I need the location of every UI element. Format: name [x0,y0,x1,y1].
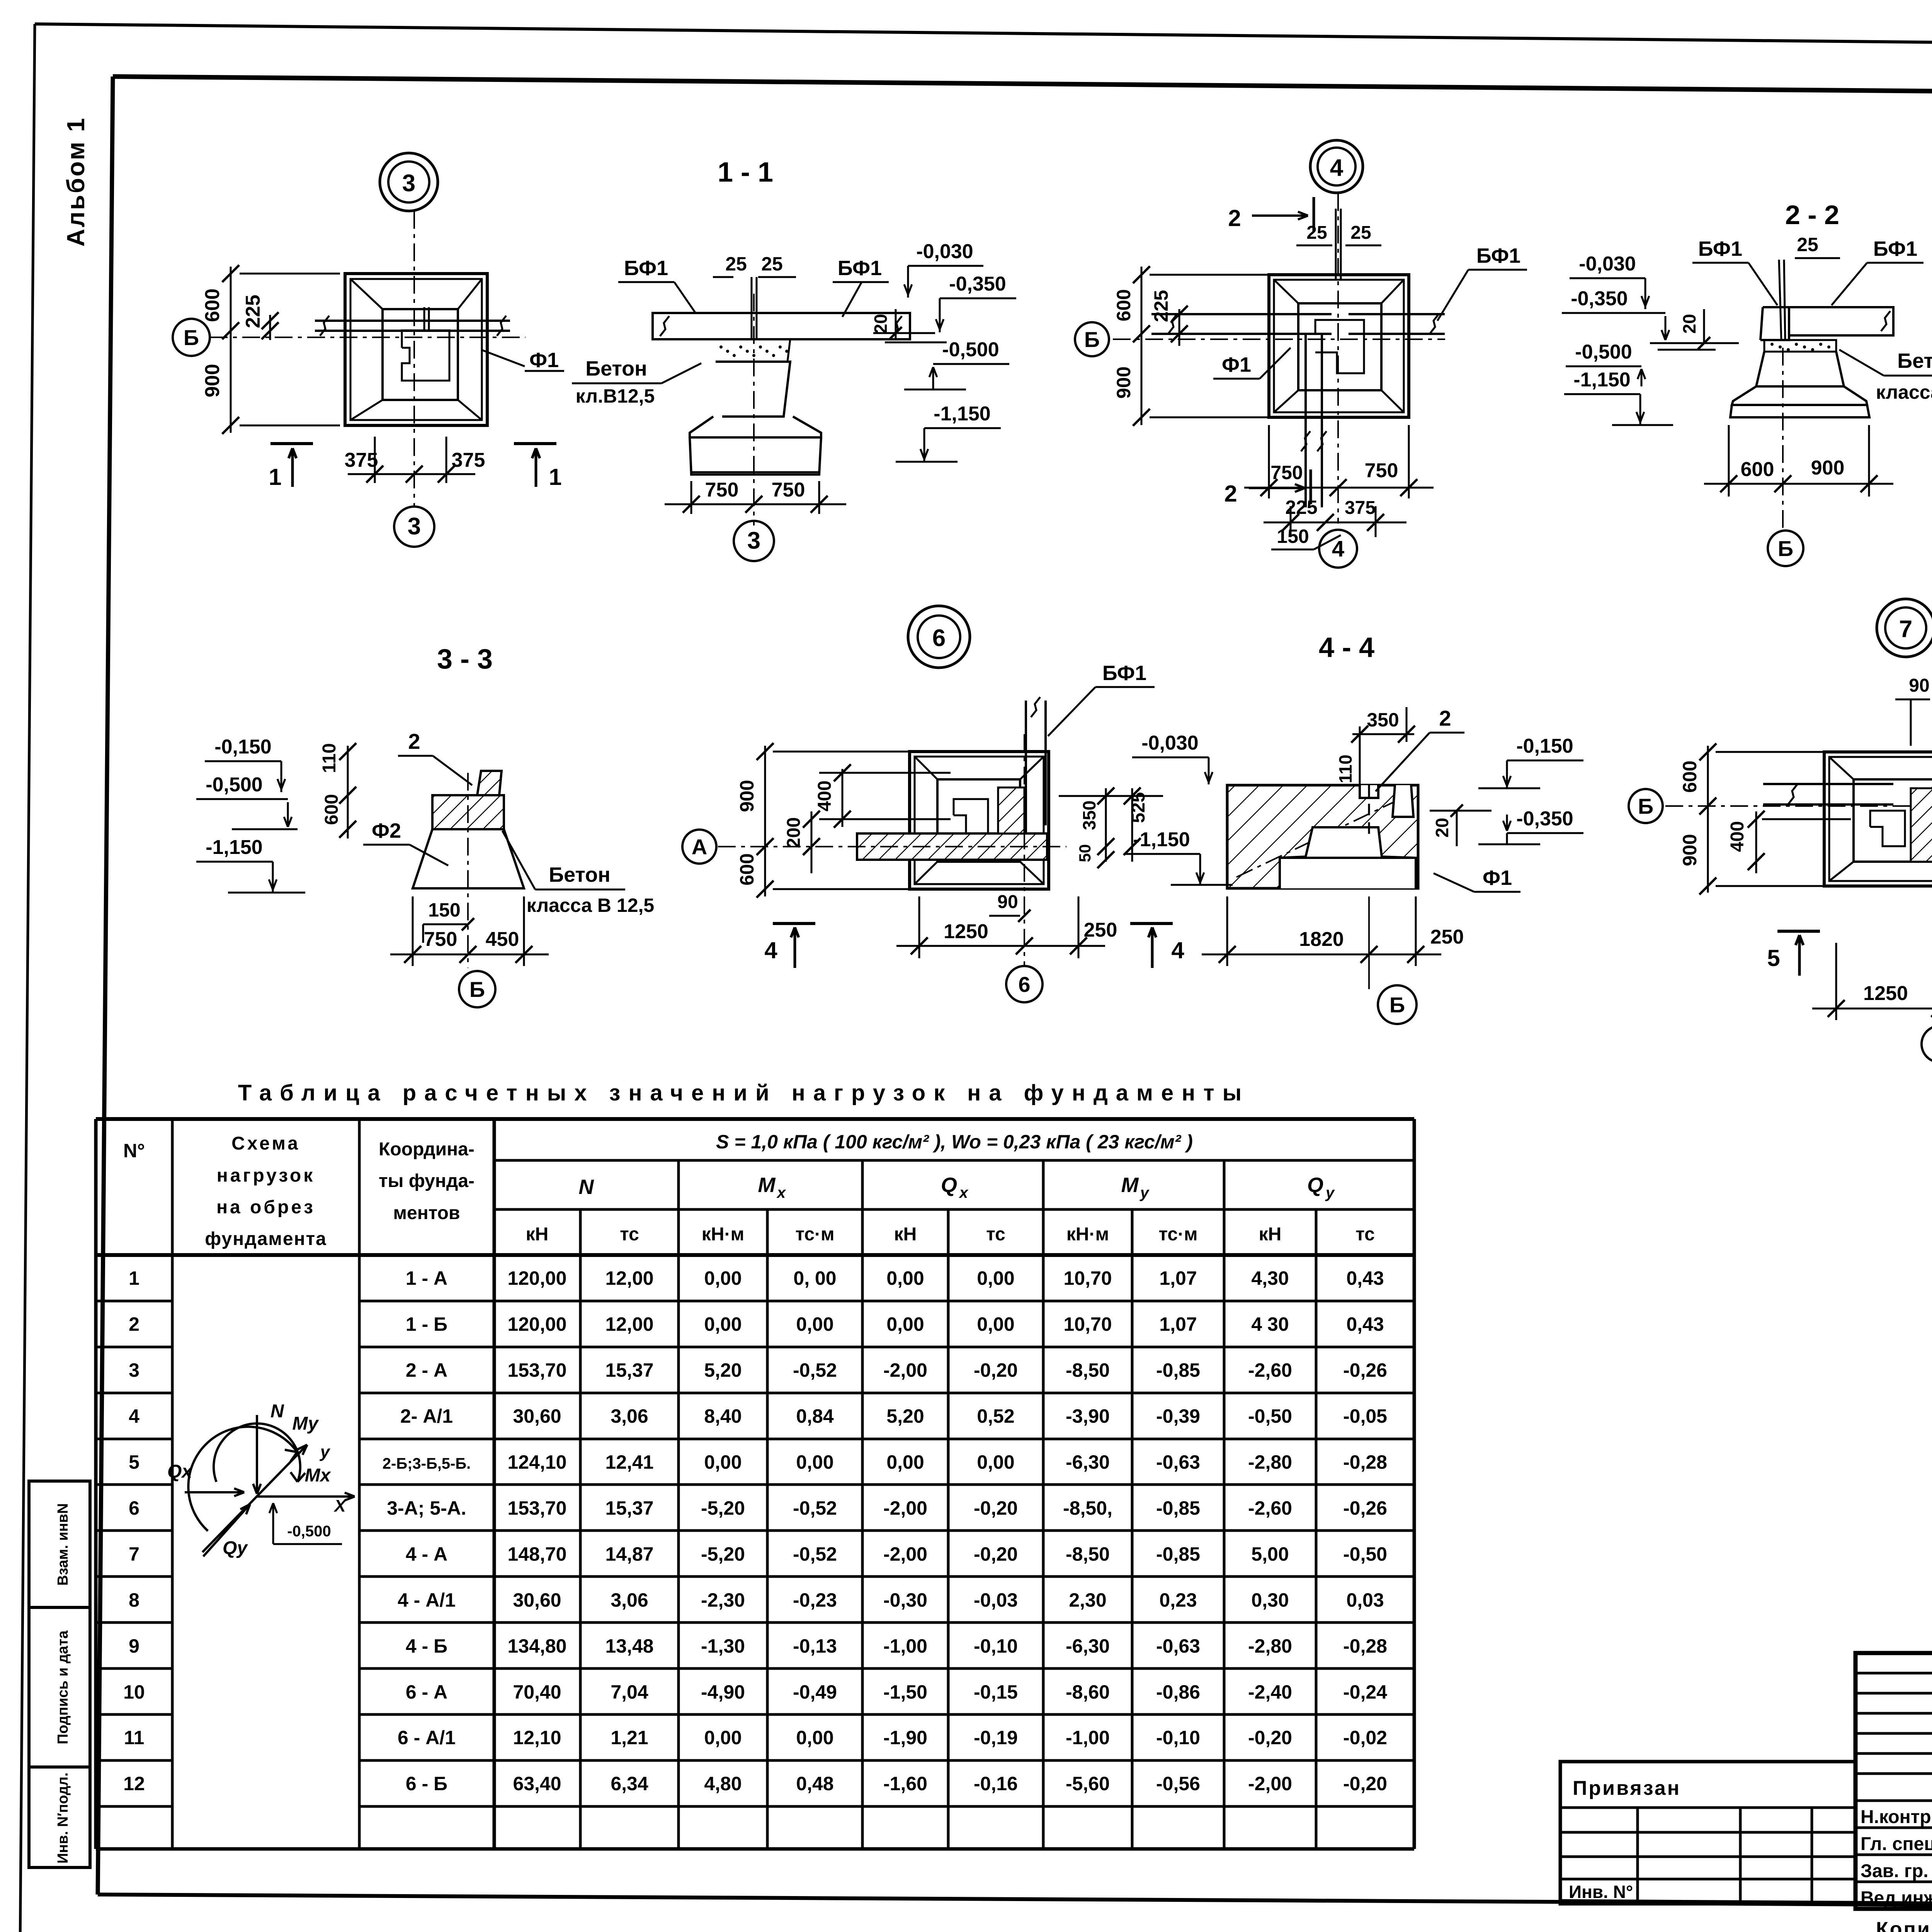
svg-text:63,40: 63,40 [513,1773,561,1794]
svg-text:Бетон: Бетон [585,357,647,380]
node 4 plan - vertical beam going down [1304,334,1307,507]
svg-text:Б: Б [1638,794,1653,818]
svg-text:1,07: 1,07 [1159,1267,1197,1289]
node 7 plan - corner diagonals [1829,757,1854,779]
svg-text:тс·м: тс·м [1158,1224,1197,1245]
svg-text:0,00: 0,00 [796,1313,833,1335]
svg-text:0,52: 0,52 [977,1405,1014,1427]
svg-text:8,40: 8,40 [704,1405,742,1427]
svg-text:250: 250 [1084,919,1117,941]
svg-text:А: А [692,835,707,859]
section 2-2 - bottom dimension 600 900 [1728,425,1730,497]
svg-text:-2,60: -2,60 [1248,1497,1292,1519]
svg-text:Б: Б [184,325,199,350]
node 4 plan - vertical axis line [1337,193,1339,524]
node 3 plan - label F1 with leader [481,350,525,366]
svg-text:-0,56: -0,56 [1156,1773,1200,1794]
scheme level -0.500 [272,1503,274,1544]
svg-text:-0,10: -0,10 [974,1635,1018,1657]
svg-text:15,37: 15,37 [605,1359,653,1381]
svg-text:-0,19: -0,19 [974,1727,1018,1748]
svg-text:134,80: 134,80 [508,1635,567,1657]
node 3 plan - vertical axis line [413,211,415,507]
svg-text:110: 110 [1335,755,1355,783]
svg-text:-0,52: -0,52 [793,1359,837,1381]
svg-text:-2,80: -2,80 [1248,1451,1292,1473]
svg-text:-0,500: -0,500 [206,774,262,796]
node 7 plan - horizontal beam entering [1763,783,1893,785]
svg-text:-0,350: -0,350 [1571,287,1628,310]
svg-text:Мх: Мх [305,1465,332,1486]
svg-text:0,00: 0,00 [977,1451,1014,1473]
svg-text:25: 25 [761,253,783,275]
svg-text:S = 1,0 кПа ( 100 кгс/м² ), W: S = 1,0 кПа ( 100 кгс/м² ), Wo = 0,23 кП… [716,1131,1193,1153]
svg-text:-0,28: -0,28 [1343,1635,1387,1657]
svg-text:Ф1: Ф1 [1483,866,1512,889]
section 4-4 - bottom axis circle B [1378,985,1417,1024]
svg-text:5: 5 [129,1451,139,1473]
svg-text:0,00: 0,00 [886,1451,924,1473]
svg-text:12,00: 12,00 [605,1313,653,1335]
node 4 plan - dimension 225 375 [1290,506,1292,537]
svg-text:150: 150 [428,899,460,921]
node 6 plan - corner diagonals [915,757,937,779]
svg-text:148,70: 148,70 [508,1543,567,1565]
svg-text:Схема: Схема [231,1133,300,1154]
svg-text:-0,52: -0,52 [793,1497,837,1519]
svg-text:4 - А: 4 - А [406,1543,447,1565]
svg-text:Б: Б [1389,993,1405,1017]
svg-text:тс: тс [986,1224,1005,1245]
svg-text:120,00: 120,00 [508,1267,567,1289]
svg-text:6 - Б: 6 - Б [406,1773,447,1794]
svg-text:15,37: 15,37 [605,1497,653,1519]
svg-text:Б: Б [469,977,485,1002]
svg-text:2 - 2: 2 - 2 [1785,200,1839,230]
scheme N arrow [256,1415,258,1494]
svg-text:-1,50: -1,50 [883,1681,927,1703]
svg-text:-0,500: -0,500 [287,1523,331,1540]
svg-text:-0,50: -0,50 [1343,1543,1387,1565]
svg-text:0, 00: 0, 00 [793,1267,836,1289]
section 1-1 - beam slab [653,313,910,339]
svg-text:ты фунда-: ты фунда- [379,1171,474,1191]
node 4 plan - cup rim [1298,303,1381,390]
section 2-2 - beam slab [1789,307,1893,335]
svg-text:БФ1: БФ1 [838,257,882,280]
svg-text:Инв. N′подл.: Инв. N′подл. [55,1772,71,1864]
svg-text:5,20: 5,20 [886,1405,924,1427]
svg-text:0,00: 0,00 [796,1727,833,1748]
node 3 plan - section mark 1 left [270,442,313,445]
section 3-3 - dimension 750 450 [412,896,414,966]
svg-text:-2,00: -2,00 [883,1497,927,1519]
section 2-2 - axis line [1782,348,1784,529]
node 3 plan - top axis circle 3 [380,153,438,211]
svg-text:3: 3 [129,1359,139,1381]
svg-text:4,80: 4,80 [704,1773,742,1794]
svg-text:2: 2 [408,729,420,753]
svg-text:0,03: 0,03 [1346,1589,1384,1611]
svg-text:-0,28: -0,28 [1343,1451,1387,1473]
node 7 plan - outer square [1824,752,1932,886]
svg-text:2 - А: 2 - А [406,1359,447,1381]
section 2-2 - bottom axis circle B [1768,531,1803,566]
svg-text:4: 4 [1332,536,1344,561]
svg-text:-5,60: -5,60 [1066,1773,1110,1794]
node 3 plan - corner diagonals [350,279,383,309]
svg-text:класса В 12,5: класса В 12,5 [1876,381,1932,403]
svg-text:-0,15: -0,15 [974,1681,1018,1703]
svg-text:N: N [579,1175,594,1199]
svg-text:-1,60: -1,60 [883,1773,927,1794]
svg-text:11: 11 [124,1727,145,1748]
svg-text:3: 3 [402,170,415,197]
node 3 plan - horizontal axis line B [210,337,526,338]
node 6 plan - vertical axis line [1024,734,1025,966]
svg-text:-0,10: -0,10 [1156,1727,1200,1748]
svg-text:у: у [320,1442,331,1461]
svg-text:тс·м: тс·м [795,1224,834,1245]
svg-text:153,70: 153,70 [508,1359,567,1381]
svg-text:20: 20 [871,314,891,333]
section 1-1 - column joint pair [751,277,753,339]
svg-text:3,06: 3,06 [611,1589,648,1611]
svg-text:тс: тс [620,1224,639,1245]
svg-text:1: 1 [129,1267,139,1289]
svg-text:4,30: 4,30 [1251,1267,1289,1289]
svg-text:-0,52: -0,52 [793,1543,837,1565]
svg-text:-0,03: -0,03 [974,1589,1018,1611]
node 4 plan - axis circle B [1075,322,1109,356]
svg-text:-0,030: -0,030 [916,240,973,263]
section 1-1 - bottom axis circle 3 [734,521,774,561]
node 3 plan - axis circle B [173,319,210,356]
node 3 plan - bottom axis circle 3 [394,507,434,547]
svg-text:-6,30: -6,30 [1066,1451,1110,1473]
node 7 plan - left dimension 600 900 400 [1707,746,1709,893]
svg-text:-1,90: -1,90 [883,1727,927,1748]
svg-text:-0,030: -0,030 [1141,732,1198,754]
svg-text:x: x [959,1184,969,1201]
svg-text:3: 3 [408,513,421,540]
svg-text:N: N [270,1401,284,1422]
svg-text:Х: Х [333,1497,347,1515]
svg-text:-0,500: -0,500 [1575,341,1632,363]
section 2-2 - base block [1730,405,1869,417]
svg-text:30,60: 30,60 [513,1405,561,1427]
svg-text:x: x [776,1184,786,1201]
section 1-1 - axis line [753,294,755,526]
svg-text:200: 200 [784,817,804,848]
svg-text:250: 250 [1430,926,1464,948]
section 3-3 - bottom axis circle B [459,971,495,1007]
svg-text:Б: Б [1778,536,1793,561]
node 4 plan - internal stepped column [1315,320,1364,373]
svg-text:Подпись и дата: Подпись и дата [55,1630,71,1744]
svg-text:БФ1: БФ1 [1873,237,1917,260]
svg-text:Гл. спец: Гл. спец [1861,1834,1932,1854]
svg-text:6 - А: 6 - А [406,1681,447,1703]
svg-text:Копировал: Копировал [1876,1918,1932,1932]
svg-text:0,00: 0,00 [977,1313,1014,1335]
node 3 plan - cup rim square [383,309,458,400]
svg-text:-5,20: -5,20 [701,1543,745,1565]
svg-text:Инв. N°: Инв. N° [1569,1882,1633,1902]
svg-text:-0,030: -0,030 [1579,253,1636,275]
svg-text:Му: Му [292,1413,319,1434]
svg-text:4: 4 [1171,937,1184,963]
section 4-4 - hatched ground block [1227,785,1418,888]
section 3-3 - hatched pier block [432,795,504,829]
node 6 plan - left dimension 900 600 400 200 [764,746,766,896]
node 4 plan - bottom axis circle 4 [1319,530,1357,568]
svg-text:900: 900 [736,780,758,812]
svg-text:25: 25 [1306,223,1327,243]
svg-text:2,30: 2,30 [1069,1589,1106,1611]
svg-text:124,10: 124,10 [508,1451,567,1473]
svg-text:120,00: 120,00 [508,1313,567,1335]
svg-text:-0,05: -0,05 [1343,1405,1387,1427]
node 6 plan - section mark 4 right [1130,922,1173,925]
svg-text:-0,30: -0,30 [883,1589,927,1611]
svg-text:-1,150: -1,150 [1133,828,1190,851]
svg-text:12: 12 [123,1773,145,1794]
node 7 plan - top axis circle 7 [1877,599,1932,657]
svg-text:-0,150: -0,150 [1516,735,1573,757]
scheme y diagonal axis [202,1445,307,1552]
svg-text:110: 110 [319,743,340,773]
svg-text:1 - 1: 1 - 1 [718,157,773,188]
svg-text:Ф1: Ф1 [1222,353,1251,376]
node 3 plan - column section [402,330,449,381]
svg-text:БФ1: БФ1 [624,257,668,280]
node 6 plan - horizontal axis line A [718,846,1066,847]
svg-text:5: 5 [1767,945,1780,971]
svg-text:750: 750 [424,928,457,951]
svg-text:0,00: 0,00 [704,1267,742,1289]
svg-text:600: 600 [736,853,758,885]
node 6 plan - cup rim [937,779,1020,862]
node 6 plan - internal stepped column [954,799,988,835]
svg-text:0,00: 0,00 [704,1451,742,1473]
svg-text:-2,00: -2,00 [1248,1773,1292,1794]
svg-text:750: 750 [1270,462,1303,483]
svg-text:-0,350: -0,350 [949,273,1006,295]
section 1-1 - bottom dimension 750 750 [690,481,692,514]
section 4-4 - dashdot diagonal [1236,796,1406,877]
svg-text:нагрузок: нагрузок [217,1165,315,1186]
svg-text:Взам. инвN: Взам. инвN [55,1503,71,1585]
svg-text:-0,20: -0,20 [1248,1727,1292,1748]
svg-text:400: 400 [1727,821,1748,852]
svg-text:25: 25 [725,253,747,275]
svg-text:0,43: 0,43 [1346,1267,1384,1289]
left margin strip boxes [29,1481,90,1867]
svg-text:-1,30: -1,30 [701,1635,745,1657]
node 7 plan - hatched vertical strip [1911,788,1932,862]
svg-text:y: y [1139,1184,1150,1201]
svg-text:БФ1: БФ1 [1476,244,1520,267]
svg-text:-0,20: -0,20 [974,1497,1018,1519]
svg-text:кН: кН [1259,1224,1282,1245]
svg-text:5,00: 5,00 [1251,1543,1289,1565]
svg-text:-0,50: -0,50 [1248,1405,1292,1427]
svg-text:1 - А: 1 - А [406,1267,447,1289]
sheet outer border top line [35,24,1932,49]
svg-text:-0,20: -0,20 [974,1543,1018,1565]
svg-text:Альбом 1: Альбом 1 [62,117,90,247]
svg-text:Координа-: Координа- [379,1139,474,1160]
node 6 plan - bottom axis circle 6 [1006,966,1043,1002]
svg-text:7,04: 7,04 [611,1681,648,1703]
svg-text:10,70: 10,70 [1063,1267,1112,1289]
svg-text:4 - Б: 4 - Б [406,1635,447,1657]
node 6 plan - bottom dimension 1250 250 [918,896,920,958]
svg-text:750: 750 [772,479,805,501]
svg-text:1,07: 1,07 [1159,1313,1197,1335]
svg-text:6 - А/1: 6 - А/1 [398,1727,456,1748]
node 3 plan - outer square [345,274,487,425]
svg-text:-1,150: -1,150 [206,836,262,859]
svg-text:-3,90: -3,90 [1066,1405,1110,1427]
node 3 plan - column joint pair [423,307,425,331]
svg-text:-0,86: -0,86 [1156,1681,1200,1703]
svg-text:0,00: 0,00 [886,1267,924,1289]
svg-text:1250: 1250 [944,920,988,943]
section 4-4 - bottom dimension 1820 250 [1226,896,1228,966]
svg-text:M: M [1121,1173,1139,1197]
svg-text:на обрез: на обрез [216,1197,315,1218]
svg-text:153,70: 153,70 [508,1497,567,1519]
title block extension box privyazan [1560,1762,1856,1904]
svg-text:кН: кН [894,1224,917,1245]
svg-text:375: 375 [345,449,378,471]
svg-text:225: 225 [1150,290,1172,322]
node 4 plan - outer square [1269,275,1409,417]
svg-text:2: 2 [1228,205,1241,231]
node 6 plan - axis circle A [682,830,716,864]
svg-text:900: 900 [1811,457,1845,479]
svg-text:12,00: 12,00 [605,1267,653,1289]
svg-text:Таблица расчетных значений: Таблица расчетных значений нагрузок на ф… [238,1080,1250,1105]
section 1-1 - base block [690,437,821,474]
svg-text:-2,40: -2,40 [1248,1681,1292,1703]
svg-text:-8,50: -8,50 [1066,1359,1110,1381]
svg-text:кН·м: кН·м [1066,1224,1109,1245]
svg-text:-0,20: -0,20 [974,1359,1018,1381]
section 2-2 - pier [1756,352,1844,386]
svg-text:Q: Q [941,1173,957,1197]
svg-text:кл.В12,5: кл.В12,5 [576,385,655,407]
svg-text:БФ1: БФ1 [1698,237,1742,260]
node 7 plan - section mark 5 left [1777,930,1820,933]
svg-text:8: 8 [129,1589,139,1611]
svg-text:375: 375 [452,449,485,471]
svg-text:6: 6 [129,1497,139,1519]
svg-text:2: 2 [129,1313,139,1335]
svg-text:-0,85: -0,85 [1156,1543,1200,1565]
svg-text:9: 9 [129,1635,139,1657]
node 6 plan - hatched horizontal beam [857,833,1047,860]
svg-text:-8,50: -8,50 [1066,1543,1110,1565]
svg-text:1: 1 [549,464,561,490]
svg-text:фундамента: фундамента [205,1229,327,1249]
svg-text:Ф1: Ф1 [529,349,559,372]
section 2-2 - column head left [1760,307,1789,340]
svg-text:0,43: 0,43 [1346,1313,1384,1335]
svg-text:6: 6 [932,625,946,651]
section 4-4 - axis dash vertical [1368,785,1370,838]
svg-text:Б: Б [1084,327,1100,352]
svg-text:Q: Q [1307,1173,1323,1197]
scheme Qx arrow [185,1491,244,1493]
svg-text:-2,60: -2,60 [1248,1359,1292,1381]
svg-text:20: 20 [1679,314,1699,333]
svg-text:600: 600 [201,289,224,322]
svg-text:-2,00: -2,00 [883,1543,927,1565]
svg-text:0,30: 0,30 [1251,1589,1289,1611]
svg-text:-0,63: -0,63 [1156,1451,1200,1473]
node 3 plan - foundation beam BF1 lines [315,320,510,322]
node 4 plan - top axis circle 4 [1310,140,1363,193]
svg-text:6,34: 6,34 [611,1773,648,1794]
node 4 plan - bottom dimension 750 750 [1268,425,1270,498]
node 3 plan - dimension 225 [269,315,271,340]
svg-text:4: 4 [129,1405,139,1427]
section 4-4 - beam stub right [1393,785,1413,817]
scheme My outer arc [188,1427,297,1531]
svg-text:600: 600 [1113,289,1134,321]
svg-text:-4,90: -4,90 [701,1681,745,1703]
svg-text:класса В 12,5: класса В 12,5 [527,895,654,916]
svg-text:750: 750 [705,479,739,501]
node 4 plan - horizontal axis line B [1113,338,1445,340]
svg-text:2-Б;3-Б,5-Б.: 2-Б;3-Б,5-Б. [383,1455,471,1472]
svg-text:0,00: 0,00 [704,1727,742,1748]
node 3 plan - left dimension line 600 900 [230,267,232,433]
svg-text:-0,13: -0,13 [793,1635,837,1657]
svg-text:-1,150: -1,150 [1573,369,1630,391]
node 7 plan - axis circle B [1629,789,1663,823]
svg-text:900: 900 [1679,834,1701,866]
svg-text:600: 600 [321,794,342,825]
svg-text:20: 20 [1432,818,1452,837]
svg-text:Бетон: Бетон [549,863,610,886]
node 3 plan - section mark 1 right [514,442,556,445]
section 2-2 - concrete bed dotted [1764,340,1836,352]
svg-text:кН: кН [526,1224,549,1245]
svg-text:5,20: 5,20 [704,1359,742,1381]
svg-text:1,21: 1,21 [611,1727,648,1748]
svg-text:Qу: Qу [223,1538,248,1558]
section 3-3 - hatched stub above [477,771,502,795]
node 6 plan - top axis circle 6 [908,606,970,668]
svg-text:4: 4 [1330,155,1344,181]
node 6 plan - vertical beam BF1 [1025,701,1027,833]
node 7 plan - horizontal axis line B [1665,805,1932,807]
svg-text:90: 90 [997,892,1018,912]
svg-text:350: 350 [1079,801,1099,830]
node 7 plan - internal stepped column [1870,811,1905,846]
svg-text:400: 400 [815,781,835,811]
svg-text:70,40: 70,40 [513,1681,561,1703]
svg-text:-0,85: -0,85 [1156,1359,1200,1381]
svg-text:30,60: 30,60 [513,1589,561,1611]
svg-text:-0,20: -0,20 [1343,1773,1387,1794]
svg-text:7: 7 [129,1543,139,1565]
section 4-4 - white notch top [1360,785,1378,798]
